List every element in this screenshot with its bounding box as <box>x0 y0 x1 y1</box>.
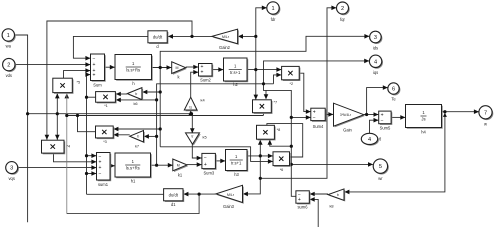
svg-text:b: b <box>337 193 339 197</box>
svg-text:−: − <box>204 156 207 162</box>
svg-text:ids: ids <box>373 45 378 50</box>
svg-text:k6: k6 <box>133 101 137 106</box>
svg-text:du/dt: du/dt <box>169 193 179 198</box>
svg-text:+: + <box>200 70 203 76</box>
svg-text:wa: wa <box>6 44 12 49</box>
svg-text:−: − <box>381 118 384 124</box>
svg-text:3: 3 <box>374 35 377 41</box>
svg-text:*1: *1 <box>104 104 108 108</box>
svg-text:3: 3 <box>10 166 13 172</box>
svg-text:du/dt: du/dt <box>153 35 163 40</box>
svg-text:Sum4: Sum4 <box>313 124 324 129</box>
svg-text:Te: Te <box>391 97 396 102</box>
svg-text:1: 1 <box>271 6 274 12</box>
svg-text:Js: Js <box>421 117 425 122</box>
svg-text:M: M <box>177 163 180 167</box>
svg-text:2: 2 <box>341 6 344 12</box>
svg-text:3*N/4Lr: 3*N/4Lr <box>340 113 352 117</box>
svg-text:−: − <box>313 115 316 121</box>
svg-text:Sum5: Sum5 <box>380 125 391 130</box>
svg-text:+: + <box>204 162 207 168</box>
svg-text:M: M <box>176 66 179 70</box>
svg-text:b: b <box>135 92 137 96</box>
svg-text:tr.s+1: tr.s+1 <box>230 70 241 75</box>
svg-text:sum6: sum6 <box>297 205 308 210</box>
svg-text:+: + <box>92 73 95 79</box>
svg-text:fdr: fdr <box>271 17 276 22</box>
svg-text:Gain2: Gain2 <box>219 45 231 50</box>
svg-text:w: w <box>484 121 487 126</box>
svg-text:wr: wr <box>378 176 383 181</box>
svg-text:Sum3: Sum3 <box>203 170 214 175</box>
svg-text:k5: k5 <box>203 135 207 140</box>
svg-text:ls.s+Rs: ls.s+Rs <box>126 68 140 73</box>
svg-text:tl: tl <box>379 137 381 142</box>
svg-text:Sum2: Sum2 <box>200 78 211 83</box>
svg-text:d1: d1 <box>171 202 176 207</box>
svg-text:Gain3: Gain3 <box>223 204 235 209</box>
svg-text:vqs: vqs <box>9 176 15 181</box>
svg-text:*6: *6 <box>280 168 284 172</box>
svg-text:5: 5 <box>379 164 382 170</box>
svg-text:+: + <box>298 197 301 203</box>
svg-text:k1: k1 <box>178 172 183 177</box>
svg-text:4: 4 <box>368 137 371 143</box>
svg-text:iqs: iqs <box>373 70 378 75</box>
svg-text:−: − <box>98 171 101 177</box>
svg-text:M/Lr: M/Lr <box>227 193 235 197</box>
svg-text:*8: *8 <box>277 128 281 132</box>
svg-text:h2: h2 <box>233 82 238 87</box>
svg-text:*5: *5 <box>77 81 81 85</box>
svg-text:*7: *7 <box>274 101 278 105</box>
svg-text:k7: k7 <box>135 143 139 148</box>
svg-text:fqr: fqr <box>340 17 345 22</box>
svg-text:*4: *4 <box>67 145 71 149</box>
svg-text:ls.s+Rs: ls.s+Rs <box>126 166 140 171</box>
svg-text:vds: vds <box>6 73 12 78</box>
svg-text:1: 1 <box>7 33 10 39</box>
svg-text:sum1: sum1 <box>98 182 109 187</box>
svg-text:h3: h3 <box>234 172 239 177</box>
svg-text:h1: h1 <box>131 179 136 184</box>
svg-text:M/Lr: M/Lr <box>222 35 230 39</box>
svg-text:b: b <box>137 135 139 139</box>
svg-text:ts: ts <box>189 105 192 109</box>
svg-text:*2: *2 <box>290 82 294 86</box>
svg-text:2: 2 <box>7 63 10 69</box>
svg-text:−: − <box>92 56 95 62</box>
svg-text:6: 6 <box>392 87 395 93</box>
svg-text:7: 7 <box>484 110 487 116</box>
svg-text:*3: *3 <box>103 140 107 144</box>
svg-text:4: 4 <box>374 59 377 65</box>
svg-text:tr.s+1: tr.s+1 <box>231 161 242 166</box>
svg-text:Gain: Gain <box>343 128 352 133</box>
svg-text:Sum: Sum <box>93 83 102 88</box>
svg-text:h4: h4 <box>421 130 426 135</box>
svg-text:k8: k8 <box>329 204 333 209</box>
